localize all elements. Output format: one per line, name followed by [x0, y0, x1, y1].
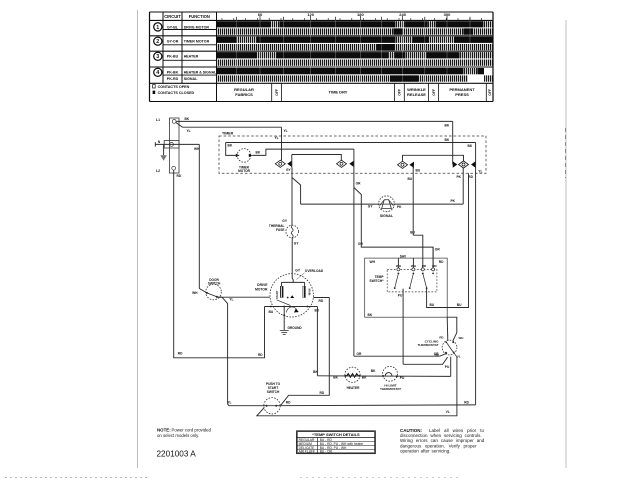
svg-text:BK: BK	[468, 144, 473, 148]
svg-text:TIMER MOTOR: TIMER MOTOR	[184, 40, 210, 44]
svg-text:GY: GY	[282, 219, 288, 223]
svg-text:L2: L2	[156, 169, 160, 173]
svg-text:START: START	[275, 290, 279, 299]
svg-text:YL: YL	[187, 129, 191, 133]
svg-text:AIR FLUFF: AIR FLUFF	[299, 450, 315, 454]
svg-text:YL: YL	[284, 129, 288, 133]
svg-text:BK: BK	[256, 150, 261, 154]
svg-text:300: 300	[444, 12, 451, 17]
svg-text:WH: WH	[459, 336, 464, 340]
svg-text:PU: PU	[400, 376, 405, 380]
svg-text:PK: PK	[397, 205, 402, 209]
svg-text:FUNCTION: FUNCTION	[189, 14, 210, 19]
svg-text:RD: RD	[258, 353, 263, 357]
svg-text:GY-BL: GY-BL	[167, 25, 179, 29]
svg-text:4: 4	[156, 70, 159, 76]
svg-text:BU: BU	[408, 177, 413, 181]
svg-text:GY-OR: GY-OR	[167, 40, 179, 44]
svg-text:240: 240	[399, 12, 406, 17]
svg-text:RD: RD	[319, 299, 324, 303]
svg-text:VL: VL	[457, 354, 461, 358]
svg-text:BU: BU	[430, 303, 435, 307]
svg-text:YL: YL	[227, 401, 231, 405]
svg-text:YL: YL	[229, 298, 233, 302]
svg-text:RD: RD	[464, 400, 469, 404]
svg-text:BK: BK	[333, 376, 338, 380]
svg-text:1: 1	[156, 25, 159, 31]
svg-text:2: 2	[156, 39, 159, 45]
svg-text:operation after servicing.: operation after servicing.	[400, 449, 450, 454]
svg-text:SIGNAL: SIGNAL	[380, 214, 394, 218]
svg-text:OFF: OFF	[275, 89, 279, 96]
svg-text:CONTACTS CLOSED: CONTACTS CLOSED	[158, 91, 195, 95]
svg-text:DRIVE MOTOR: DRIVE MOTOR	[184, 25, 210, 29]
svg-text:THERMOSTAT: THERMOSTAT	[417, 343, 438, 347]
svg-text:YL: YL	[478, 169, 482, 173]
svg-text:3: 3	[156, 54, 159, 60]
svg-text:BK: BK	[445, 123, 450, 127]
svg-text:CIRCUIT: CIRCUIT	[164, 14, 181, 19]
svg-text:180: 180	[357, 12, 364, 17]
svg-text:FABRICS: FABRICS	[235, 92, 253, 97]
svg-text:HEATER: HEATER	[184, 55, 199, 59]
svg-text:RD: RD	[177, 174, 182, 178]
svg-text:OVERLOAD: OVERLOAD	[305, 269, 324, 273]
svg-text:RD: RD	[439, 335, 443, 339]
svg-text:BK: BK	[371, 369, 376, 373]
svg-text:RD: RD	[286, 400, 291, 404]
svg-text:GY: GY	[368, 205, 374, 209]
svg-text:VL: VL	[446, 410, 450, 414]
svg-text:BU: BU	[269, 310, 274, 314]
svg-text:SWITCH: SWITCH	[208, 282, 221, 286]
svg-text:DRIVE: DRIVE	[257, 283, 268, 287]
svg-text:MOTOR: MOTOR	[238, 169, 251, 173]
svg-text:2201003 A: 2201003 A	[157, 450, 197, 459]
svg-text:BK: BK	[368, 313, 373, 317]
svg-text:BU: BU	[416, 169, 421, 173]
svg-text:WH: WH	[370, 260, 376, 264]
svg-text:PRESS: PRESS	[455, 92, 469, 97]
svg-text:BU: BU	[410, 230, 415, 234]
svg-text:SWITCH: SWITCH	[267, 390, 280, 394]
svg-text:PU: PU	[445, 365, 450, 369]
svg-text:PK: PK	[457, 175, 462, 179]
svg-text:MOTOR: MOTOR	[255, 287, 268, 291]
svg-text:SIGNAL: SIGNAL	[184, 77, 198, 81]
svg-text:RD: RD	[320, 391, 325, 395]
svg-text:60: 60	[258, 12, 263, 17]
svg-text:HEATER: HEATER	[347, 386, 361, 390]
svg-text:OFF: OFF	[398, 89, 402, 96]
svg-text:BU: BU	[457, 303, 462, 307]
svg-text:HEATER & SIGNAL: HEATER & SIGNAL	[184, 70, 217, 74]
svg-text:RELEASE: RELEASE	[407, 92, 426, 97]
svg-text:TIMER: TIMER	[222, 131, 234, 135]
svg-text:PK-BU: PK-BU	[167, 55, 179, 59]
svg-text:PU: PU	[398, 293, 403, 297]
svg-text:PK-BK: PK-BK	[167, 70, 179, 74]
svg-text:OR: OR	[357, 352, 363, 356]
svg-text:WH: WH	[192, 291, 198, 295]
svg-text:MAIN: MAIN	[308, 289, 312, 296]
svg-text:GROUND: GROUND	[288, 326, 303, 330]
svg-text:BU - OR: BU - OR	[320, 450, 333, 454]
svg-text:OR: OR	[356, 181, 362, 185]
svg-text:FUSE: FUSE	[276, 228, 285, 232]
svg-text:THERMOSTAT: THERMOSTAT	[380, 387, 401, 391]
svg-text:BK: BK	[228, 144, 233, 148]
svg-text:CONTACTS OPEN: CONTACTS OPEN	[158, 85, 190, 89]
svg-text:BK: BK	[445, 138, 450, 142]
svg-text:YL: YL	[275, 136, 279, 140]
svg-text:GY: GY	[295, 269, 301, 273]
svg-text:on select models only.: on select models only.	[157, 433, 199, 438]
svg-text:OFF: OFF	[488, 89, 492, 96]
svg-text:BK: BK	[313, 370, 318, 374]
svg-text:120: 120	[307, 12, 314, 17]
svg-text:TIME DRY: TIME DRY	[329, 90, 348, 95]
svg-text:OR: OR	[358, 242, 364, 246]
svg-text:RD: RD	[439, 260, 444, 264]
svg-text:OR: OR	[435, 247, 441, 251]
svg-text:SWITCH*: SWITCH*	[369, 279, 384, 283]
svg-text:GY: GY	[286, 168, 292, 172]
svg-text:*TEMP SWITCH DETAILS: *TEMP SWITCH DETAILS	[312, 432, 360, 437]
svg-text:RD: RD	[178, 352, 183, 356]
svg-text:GY: GY	[294, 241, 300, 245]
svg-text:BK: BK	[362, 375, 367, 379]
svg-text:L1: L1	[156, 118, 160, 122]
svg-text:SAV: SAV	[400, 254, 407, 258]
svg-text:RD: RD	[468, 175, 473, 179]
svg-text:PK: PK	[450, 199, 455, 203]
svg-text:BK: BK	[185, 117, 190, 121]
svg-text:PK-RD: PK-RD	[167, 77, 179, 81]
svg-text:OFF: OFF	[432, 89, 436, 96]
